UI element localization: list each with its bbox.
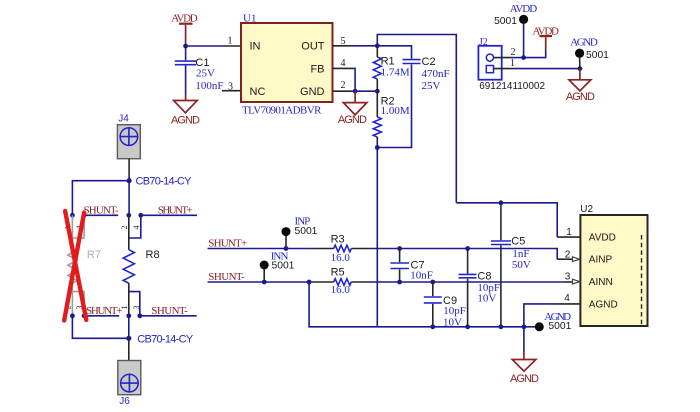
svg-text:AGND: AGND bbox=[566, 91, 595, 103]
svg-text:2: 2 bbox=[341, 80, 346, 91]
svg-text:GND: GND bbox=[300, 86, 325, 98]
capacitor C5 bbox=[491, 203, 531, 327]
wire R7 bottom to node bbox=[72, 316, 128, 339]
svg-text:16.0: 16.0 bbox=[331, 252, 351, 264]
wire R3 to U2 AINP bbox=[370, 249, 557, 260]
wire node to R7 top bbox=[72, 181, 129, 216]
node C8 top bbox=[465, 246, 470, 251]
node INN junction bbox=[262, 280, 267, 285]
svg-text:1.00M: 1.00M bbox=[381, 105, 410, 117]
svg-text:U2: U2 bbox=[580, 204, 593, 215]
svg-text:2: 2 bbox=[511, 47, 516, 58]
wire AVDD rail to U2 pin 1 bbox=[456, 203, 557, 237]
resistor R2 bbox=[373, 91, 410, 147]
connector J2 bbox=[478, 37, 545, 92]
svg-text:AGND: AGND bbox=[338, 114, 367, 126]
op-amp U1 TLV70901ADBVR bbox=[241, 13, 333, 117]
resistor R5 bbox=[331, 267, 370, 297]
svg-text:1.74M: 1.74M bbox=[381, 67, 410, 79]
power symbol AVDD (top left) bbox=[171, 13, 198, 46]
wire OUT to C2 top bbox=[377, 46, 411, 59]
wire node to R8 top bbox=[128, 181, 130, 216]
node C7 bottom bbox=[397, 280, 402, 285]
resistor R7 (DNP) bbox=[68, 215, 101, 315]
node INP junction bbox=[284, 246, 289, 251]
svg-text:TLV70901ADBVR: TLV70901ADBVR bbox=[242, 105, 322, 117]
connector J6 bbox=[118, 361, 141, 408]
wire R8 bottom to node bbox=[128, 316, 130, 339]
wire AVDD node to U1 pin 1 bbox=[186, 45, 222, 47]
svg-text:4: 4 bbox=[564, 293, 570, 304]
power symbol AVDD test point label (top) bbox=[510, 3, 538, 15]
node SHUNT+ net label (center) bbox=[208, 238, 247, 250]
svg-text:CB70-14-CY: CB70-14-CY bbox=[136, 176, 193, 188]
svg-text:AVDD: AVDD bbox=[589, 233, 616, 244]
svg-text:5001: 5001 bbox=[586, 50, 609, 61]
svg-text:470nF: 470nF bbox=[422, 68, 450, 80]
ground AGND (below U1) bbox=[338, 91, 367, 126]
svg-text:AGND: AGND bbox=[171, 114, 200, 126]
wire J2 pin 2 bbox=[494, 57, 513, 59]
resistor R3 bbox=[331, 234, 370, 265]
capacitor C8 bbox=[459, 249, 501, 327]
test point AVDD 5001 bbox=[494, 15, 528, 58]
wire R7 pin 3 to SHUNT+ bbox=[84, 315, 119, 317]
node R8 pin 1 bbox=[126, 313, 131, 318]
svg-text:1: 1 bbox=[510, 58, 515, 69]
wire R8 pin 4 to SHUNT+ bbox=[141, 214, 197, 216]
test point AGND 5001 (at J2) bbox=[570, 37, 609, 69]
node R7 pin 1 bbox=[70, 213, 75, 218]
svg-text:AGND: AGND bbox=[589, 299, 618, 310]
svg-text:J6: J6 bbox=[119, 396, 130, 407]
svg-text:50V: 50V bbox=[512, 259, 531, 271]
wire SHUNT+ line to R3 bbox=[208, 248, 316, 250]
svg-text:AVDD: AVDD bbox=[510, 3, 538, 15]
wire R8 pin 3 to SHUNT- bbox=[140, 315, 197, 317]
svg-text:4: 4 bbox=[341, 58, 346, 69]
node SHUNT- net label (upper left) bbox=[84, 204, 119, 216]
svg-text:5001: 5001 bbox=[548, 321, 571, 332]
wire R2 node down to AGND rail bbox=[376, 148, 378, 327]
svg-text:U1: U1 bbox=[243, 13, 256, 25]
node C9 top bbox=[430, 280, 435, 285]
svg-text:FB: FB bbox=[310, 63, 324, 75]
node GND/FB junction bbox=[353, 89, 358, 94]
svg-text:3: 3 bbox=[565, 272, 571, 283]
test point INN 5001 bbox=[260, 251, 295, 283]
node C7 top bbox=[397, 246, 402, 251]
svg-text:10nF: 10nF bbox=[410, 270, 433, 282]
test point AGND 5001 (bottom) bbox=[535, 311, 572, 332]
node U2 AGND junction bbox=[522, 324, 527, 329]
node OUT bbox=[375, 43, 380, 48]
svg-text:R5: R5 bbox=[331, 267, 345, 279]
node SHUNT- net label (center) bbox=[208, 271, 245, 283]
svg-text:CB70-14-CY: CB70-14-CY bbox=[137, 333, 194, 345]
svg-text:100nF: 100nF bbox=[195, 80, 223, 92]
connector J4 bbox=[117, 114, 140, 159]
svg-text:AINP: AINP bbox=[589, 255, 613, 266]
node C5 top bbox=[499, 200, 504, 205]
node CB70-14-CY (top) bbox=[127, 178, 132, 183]
svg-text:R3: R3 bbox=[331, 234, 345, 246]
node R7 pin 3 bbox=[82, 313, 87, 318]
node R8 pin 2 bbox=[126, 213, 131, 218]
pin 2 input arrow bbox=[573, 257, 580, 262]
svg-text:OUT: OUT bbox=[301, 41, 325, 53]
ground AGND (bottom) bbox=[510, 327, 539, 385]
node R8 pin 4 bbox=[138, 213, 143, 218]
wire AVDD symbol to J2 pin 2 bbox=[524, 50, 546, 58]
svg-text:5001: 5001 bbox=[272, 261, 295, 272]
svg-text:C8: C8 bbox=[477, 271, 491, 283]
svg-text:5001: 5001 bbox=[494, 16, 517, 27]
power symbol AVDD (at J2) bbox=[532, 25, 559, 50]
svg-text:10V: 10V bbox=[477, 292, 496, 304]
node CB70-14-CY (bottom) bbox=[126, 336, 131, 341]
capacitor C7 bbox=[390, 249, 433, 283]
node J2 pin 1 AGND bbox=[578, 66, 583, 71]
node SHUNT+ net label (lower left) bbox=[86, 305, 123, 317]
svg-text:AGND: AGND bbox=[510, 373, 539, 385]
svg-text:1: 1 bbox=[228, 36, 233, 47]
svg-text:NC: NC bbox=[250, 86, 266, 98]
pin 3 input arrow bbox=[573, 279, 580, 284]
svg-text:2: 2 bbox=[120, 226, 129, 230]
svg-text:25V: 25V bbox=[196, 68, 215, 80]
wire node to J6 bbox=[128, 338, 130, 360]
resistor R8 bbox=[123, 215, 159, 315]
svg-text:10pF: 10pF bbox=[443, 305, 466, 317]
node C5 bottom bbox=[499, 324, 504, 329]
svg-text:25V: 25V bbox=[422, 80, 441, 92]
wire U1 pin 3 stub bbox=[222, 90, 241, 92]
node R8 pin 3 bbox=[137, 313, 142, 318]
wire R7 pin 4 to SHUNT- bbox=[84, 214, 118, 216]
svg-text:R8: R8 bbox=[146, 249, 160, 261]
capacitor C2 bbox=[403, 56, 450, 92]
svg-text:R7: R7 bbox=[87, 249, 101, 261]
ground AGND (below C1) bbox=[171, 95, 200, 126]
op-amp U2 bbox=[580, 204, 647, 326]
node C8 bottom bbox=[465, 324, 470, 329]
DNP cross over R7 bbox=[64, 211, 86, 321]
wire R5 to U2 AINN bbox=[370, 281, 565, 283]
wire SHUNT- line to R5 bbox=[208, 281, 316, 283]
wire R2 bottom to C2 bottom bbox=[377, 65, 411, 148]
node R7 pin 4 bbox=[82, 213, 87, 218]
node AVDD at U1 IN bbox=[183, 44, 188, 49]
wire U1 OUT to node bbox=[333, 45, 351, 47]
svg-text:J4: J4 bbox=[118, 114, 129, 125]
wire J2 pin 1 to AGND bbox=[494, 68, 516, 70]
svg-text:2: 2 bbox=[565, 249, 571, 260]
svg-text:C2: C2 bbox=[422, 56, 436, 68]
node C9 bottom bbox=[430, 324, 435, 329]
node R1/R2 bbox=[375, 89, 380, 94]
wire OUT riser to AVDD rail bbox=[377, 35, 456, 203]
node AGND drop junction bbox=[307, 280, 312, 285]
svg-text:C5: C5 bbox=[511, 236, 525, 248]
wire U1 GND bbox=[333, 90, 351, 92]
wire U1 FB to divider bbox=[333, 67, 351, 69]
test point INP 5001 bbox=[282, 215, 318, 248]
svg-text:R1: R1 bbox=[381, 55, 395, 67]
svg-text:16.0: 16.0 bbox=[331, 284, 351, 296]
wire SHUNT- to AGND rail bbox=[309, 282, 539, 327]
node J2 pin 2 bbox=[521, 55, 526, 60]
svg-text:5001: 5001 bbox=[295, 226, 318, 237]
svg-text:4: 4 bbox=[132, 226, 141, 230]
svg-text:691214110002: 691214110002 bbox=[479, 81, 545, 92]
svg-text:IN: IN bbox=[250, 41, 261, 53]
capacitor C9 bbox=[424, 282, 466, 328]
wire J4 to node bbox=[128, 159, 130, 181]
capacitor C1 bbox=[175, 46, 224, 95]
svg-text:AGND: AGND bbox=[570, 37, 598, 49]
ground AGND (at J2) bbox=[566, 69, 595, 104]
resistor R1 bbox=[373, 46, 410, 91]
node SHUNT- net label (lower right) bbox=[151, 305, 188, 317]
wire U2 pin 4 to AGND rail bbox=[556, 303, 580, 305]
svg-text:AINN: AINN bbox=[589, 277, 613, 288]
svg-text:1: 1 bbox=[566, 227, 572, 238]
node R7 pin 2 bbox=[70, 313, 75, 318]
node SHUNT+ net label (upper right) bbox=[158, 204, 193, 216]
svg-text:3: 3 bbox=[132, 306, 141, 310]
node R2 bottom bbox=[375, 145, 380, 150]
